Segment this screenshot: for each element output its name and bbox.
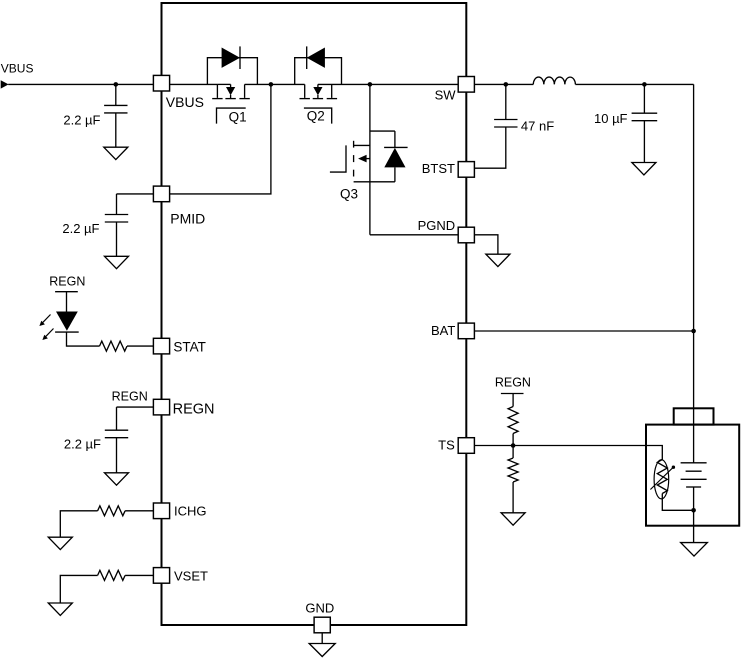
wire GND pin to ground bbox=[321, 633, 323, 644]
ground R3 bbox=[48, 603, 72, 615]
svg-text:REGN: REGN bbox=[495, 376, 531, 390]
ground C1 bbox=[104, 147, 128, 159]
ground C2 bbox=[105, 256, 129, 268]
thermistor RT1 bbox=[650, 460, 675, 499]
label C5 value bbox=[594, 111, 628, 126]
pin label BAT bbox=[431, 323, 455, 338]
label Q3 bbox=[340, 187, 358, 202]
node 10uF junction bbox=[642, 82, 647, 87]
wire Q3 to PGND pin bbox=[370, 234, 458, 236]
node BAT junction bbox=[691, 329, 696, 334]
svg-text:TS: TS bbox=[438, 437, 455, 452]
pin BAT bbox=[458, 323, 474, 339]
pin REGN bbox=[153, 399, 169, 415]
svg-text:10 µF: 10 µF bbox=[594, 111, 628, 126]
node SW external junction bbox=[504, 82, 509, 87]
pin label GND bbox=[305, 600, 334, 615]
pin PMID bbox=[153, 186, 169, 202]
battery pack terminal bump bbox=[674, 408, 714, 424]
wire battery negative to ground bbox=[693, 510, 695, 542]
pin VBUS bbox=[153, 75, 169, 91]
battery pack box bbox=[646, 425, 739, 526]
pin label PMID bbox=[170, 211, 205, 227]
wire thermistor to battery negative bbox=[662, 494, 693, 511]
pin label TS bbox=[438, 437, 455, 452]
pin label VBUS bbox=[166, 94, 204, 110]
pin label STAT bbox=[173, 340, 206, 355]
svg-text:STAT: STAT bbox=[173, 340, 206, 355]
capacitor C1 2.2uF VBUS bbox=[104, 84, 127, 147]
wire ground to R3 bbox=[60, 575, 97, 603]
svg-text:BAT: BAT bbox=[431, 323, 455, 338]
svg-text:PMID: PMID bbox=[170, 211, 205, 227]
wire R2 to ICHG pin bbox=[125, 510, 153, 512]
svg-text:VBUS: VBUS bbox=[1, 62, 34, 76]
node TS junction bbox=[511, 443, 516, 448]
svg-text:PGND: PGND bbox=[418, 218, 456, 233]
node VBUS junction bbox=[114, 82, 119, 87]
wire SYS rail down to BAT bbox=[693, 84, 695, 331]
node SW internal junction bbox=[368, 82, 373, 87]
label C4 value bbox=[521, 118, 554, 133]
resistor R5 TS pulldown bbox=[508, 458, 518, 482]
ground R2 bbox=[48, 537, 72, 549]
wire PMID node down to PMID pin bbox=[170, 84, 271, 193]
pin label BTST bbox=[422, 161, 455, 176]
ground C3 bbox=[105, 473, 129, 485]
label VBUS net bbox=[1, 62, 34, 76]
pin TS bbox=[458, 438, 474, 454]
svg-text:VBUS: VBUS bbox=[166, 94, 204, 110]
pin label VSET bbox=[174, 569, 208, 584]
label Q2 bbox=[307, 109, 325, 124]
svg-text:VSET: VSET bbox=[174, 569, 208, 584]
wire PGND pin to ground bbox=[474, 235, 498, 254]
ground PGND bbox=[486, 254, 510, 266]
label Q1 bbox=[229, 110, 247, 125]
svg-text:REGN: REGN bbox=[112, 389, 148, 403]
svg-text:SW: SW bbox=[435, 88, 457, 103]
svg-text:47 nF: 47 nF bbox=[521, 118, 554, 133]
wire Q1 drain to PMID node bbox=[245, 83, 305, 85]
label net REGN at LED bbox=[49, 275, 85, 289]
svg-text:Q1: Q1 bbox=[229, 110, 247, 125]
wire Q2 drain to SW pin bbox=[318, 83, 458, 85]
IC U1 charger bbox=[162, 3, 467, 625]
node battery negative junction bbox=[691, 508, 696, 513]
pin label REGN bbox=[173, 401, 215, 417]
power tap REGN at LED bbox=[55, 291, 78, 293]
wire R1 to STAT pin bbox=[127, 345, 153, 347]
power tap REGN at TS bbox=[501, 393, 524, 395]
wire REGN pin to C3 bbox=[117, 406, 154, 408]
svg-text:Q2: Q2 bbox=[307, 109, 325, 124]
wire R3 to VSET pin bbox=[125, 574, 153, 576]
capacitor C2 2.2uF PMID bbox=[105, 194, 128, 256]
resistor R4 TS pullup bbox=[508, 407, 518, 434]
pin label ICHG bbox=[174, 504, 207, 519]
svg-text:Q3: Q3 bbox=[340, 187, 358, 202]
pin VSET bbox=[153, 568, 169, 584]
wire R5 to ground bbox=[512, 482, 514, 513]
label net REGN at TS bbox=[495, 376, 531, 390]
LED D1 STAT bbox=[39, 312, 78, 341]
resistor R2 ICHG bbox=[98, 506, 126, 516]
pin SW bbox=[458, 77, 474, 93]
wire ground to R2 bbox=[60, 511, 97, 537]
pin BTST bbox=[458, 162, 474, 178]
wire TS pin to thermistor bbox=[474, 446, 662, 460]
wire REGN tap to LED bbox=[66, 292, 68, 312]
battery cell BT1 bbox=[681, 463, 707, 511]
svg-text:2.2 µF: 2.2 µF bbox=[62, 221, 99, 236]
svg-text:2.2 µF: 2.2 µF bbox=[63, 112, 100, 127]
inductor L1 bbox=[533, 77, 575, 84]
capacitor C3 2.2uF REGN bbox=[105, 407, 128, 473]
label C1 value bbox=[63, 112, 100, 127]
pin ICHG bbox=[153, 503, 169, 519]
wire R4 to TS node bbox=[512, 434, 514, 446]
wire VBUS pin to Q1 source bbox=[170, 83, 231, 85]
ground battery bbox=[681, 543, 708, 557]
resistor R3 VSET bbox=[98, 570, 126, 580]
pin label SW bbox=[435, 88, 457, 103]
ground C5 bbox=[632, 163, 656, 175]
wire BAT junction to battery cell bbox=[693, 331, 695, 463]
pin STAT bbox=[153, 338, 169, 354]
node VBUS input terminal bbox=[1, 80, 9, 88]
svg-text:REGN: REGN bbox=[173, 401, 215, 417]
svg-text:ICHG: ICHG bbox=[174, 504, 207, 519]
capacitor C5 10uF bbox=[632, 84, 658, 162]
wire REGN tap to R4 bbox=[512, 394, 514, 407]
label C3 value bbox=[64, 436, 101, 451]
wire VBUS input bbox=[8, 83, 153, 85]
wire BAT pin to battery bbox=[474, 330, 693, 332]
label C2 value bbox=[62, 221, 99, 236]
wire TS node to R5 bbox=[512, 446, 514, 459]
svg-text:BTST: BTST bbox=[422, 161, 455, 176]
label net REGN at pin bbox=[112, 389, 148, 403]
transistor Q2 bbox=[295, 46, 342, 123]
node PMID junction bbox=[269, 82, 274, 87]
wire LED to R1 bbox=[67, 332, 100, 346]
transistor Q3 bbox=[330, 84, 408, 234]
svg-text:GND: GND bbox=[305, 600, 334, 615]
svg-text:2.2 µF: 2.2 µF bbox=[64, 436, 101, 451]
pin PGND bbox=[458, 227, 474, 243]
svg-text:REGN: REGN bbox=[49, 275, 85, 289]
wire PMID pin to C2 bbox=[117, 193, 154, 195]
transistor Q1 bbox=[207, 46, 257, 123]
wire inductor to SYS rail bbox=[575, 83, 693, 85]
pin label PGND bbox=[418, 218, 456, 233]
ground GND pin bbox=[309, 644, 335, 657]
resistor R1 STAT bbox=[100, 341, 128, 351]
wire SW pin to inductor bbox=[474, 83, 533, 85]
pin GND bbox=[314, 617, 330, 633]
ground R5 bbox=[501, 513, 525, 525]
capacitor C4 47nF BTST bbox=[474, 84, 517, 168]
